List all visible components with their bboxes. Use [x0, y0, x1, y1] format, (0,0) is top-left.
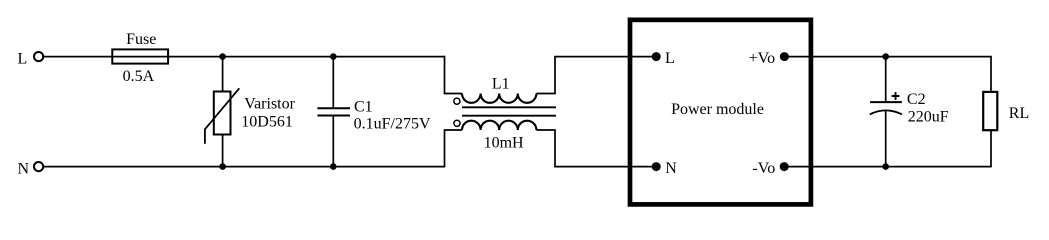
label C2	[907, 91, 926, 108]
choke L1 phase dot top	[454, 98, 460, 104]
label N (module pin)	[665, 160, 677, 177]
svg-text:220uF: 220uF	[908, 108, 949, 125]
junction top output rail / C2	[882, 53, 889, 60]
capacitor C2 (polarized)	[870, 57, 902, 167]
svg-text:+Vo: +Vo	[749, 50, 776, 67]
choke L1 phase dot bottom	[454, 120, 460, 126]
choke L1 top winding	[462, 94, 536, 103]
label L (module pin)	[665, 50, 675, 67]
svg-text:C2: C2	[907, 91, 926, 108]
capacitor C1	[317, 57, 350, 167]
svg-text:N: N	[665, 160, 677, 177]
junction bottom output rail / C2	[882, 163, 889, 170]
label 10D561	[241, 113, 293, 130]
choke L1 bottom winding	[462, 121, 536, 130]
label Varistor	[244, 95, 295, 112]
svg-text:10mH: 10mH	[484, 134, 524, 151]
terminal L	[34, 52, 43, 61]
fuse F1 body	[112, 49, 168, 63]
svg-text:0.1uF/275V: 0.1uF/275V	[354, 116, 431, 133]
label 0.1uF/275V	[354, 116, 431, 133]
svg-text:Varistor: Varistor	[244, 95, 295, 112]
varistor RV1	[205, 57, 239, 167]
junction top rail / varistor	[219, 53, 226, 60]
svg-text:L: L	[665, 50, 675, 67]
wire N terminal to choke (bottom rail)	[44, 166, 445, 168]
wire bottom winding to power module N	[536, 130, 652, 167]
power module pin L dot	[652, 52, 661, 61]
wire top rail down to RL	[990, 56, 992, 92]
label L (line input)	[18, 50, 28, 67]
label Power module	[671, 101, 764, 118]
wire L terminal to choke (top rail)	[44, 56, 445, 58]
label 0.5A	[123, 68, 155, 85]
label 220uF	[908, 108, 949, 125]
svg-text:Power module: Power module	[671, 101, 764, 118]
power module pin -Vo dot	[780, 162, 789, 171]
svg-text:N: N	[18, 160, 30, 177]
svg-text:L: L	[18, 50, 28, 67]
terminal N	[34, 162, 43, 171]
svg-text:RL: RL	[1009, 105, 1029, 122]
svg-text:-Vo: -Vo	[752, 160, 775, 177]
svg-text:Fuse: Fuse	[126, 31, 156, 48]
label L1	[492, 75, 510, 92]
choke L1 core	[462, 107, 556, 115]
junction bottom rail / varistor	[219, 163, 226, 170]
junction top rail / C1	[330, 53, 337, 60]
power module U1 box	[630, 20, 811, 205]
resistor RL	[983, 92, 997, 130]
power module pin N dot	[652, 162, 661, 171]
svg-text:L1: L1	[492, 75, 510, 92]
wire -Vo to load (bottom output rail)	[784, 166, 991, 168]
svg-text:0.5A: 0.5A	[123, 68, 155, 85]
svg-text:10D561: 10D561	[241, 113, 293, 130]
wire RL down to bottom rail	[990, 130, 992, 167]
label +Vo	[749, 50, 776, 67]
label N (neutral input)	[18, 160, 30, 177]
wire top winding to power module L	[536, 57, 652, 94]
label C1	[354, 98, 373, 115]
wire +Vo to load (top output rail)	[784, 56, 991, 58]
label 10mH	[484, 134, 524, 151]
label Fuse	[126, 31, 156, 48]
junction bottom rail / C1	[330, 163, 337, 170]
label + (C2 polarity)	[892, 92, 900, 100]
power module pin +Vo dot	[780, 52, 789, 61]
label -Vo	[752, 160, 775, 177]
wire bottom rail into choke winding	[445, 130, 463, 167]
label RL	[1009, 105, 1029, 122]
wire top rail into choke winding	[445, 56, 463, 94]
svg-text:C1: C1	[354, 98, 373, 115]
